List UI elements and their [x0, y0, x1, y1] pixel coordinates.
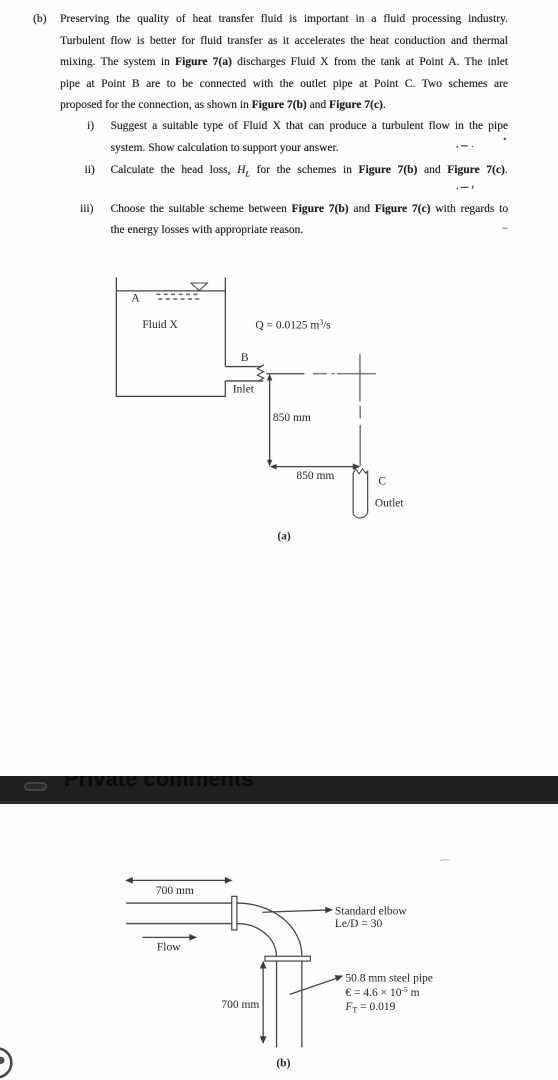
- bar icon: [24, 782, 47, 791]
- water surface triangle symbol: [191, 283, 208, 291]
- avatar ring: [0, 1048, 11, 1077]
- svg-text:(a): (a): [277, 530, 291, 542]
- leader line to steel pipe note: [290, 977, 340, 994]
- horizontal 850mm dimension line: [271, 466, 356, 468]
- bottom-left circle icon: [0, 1048, 11, 1077]
- horizontal pipe bottom wall: [126, 923, 231, 925]
- arrow left (horizontal 850mm dim): [270, 464, 277, 469]
- water surface dashes row2: [158, 298, 201, 300]
- vertical 700mm dimension line: [262, 963, 264, 1041]
- pen mark 1: [457, 146, 473, 148]
- faint smudge: [440, 860, 450, 861]
- svg-text:C: C: [378, 475, 386, 487]
- arrow to standard elbow text: [325, 907, 333, 914]
- pen mark 3: [502, 227, 507, 229]
- leader line to standard elbow: [262, 910, 329, 912]
- vertical pipe left wall: [276, 961, 278, 1047]
- bar title: [64, 767, 254, 791]
- elbow outer arc: [237, 903, 302, 956]
- centerline solid segment: [266, 373, 304, 375]
- svg-text:A: A: [131, 292, 140, 304]
- private comments bar: [0, 776, 558, 801]
- arrow of flow: [189, 934, 197, 941]
- vertical 850mm dimension line: [269, 376, 271, 464]
- arrow down (bottom of vertical 850mm dim): [267, 460, 272, 467]
- vertical dashed line to outlet: [359, 406, 361, 466]
- avatar dot: [0, 1057, 4, 1064]
- inlet pipe stub at B: [225, 367, 263, 381]
- arrow left (top 700mm dim): [125, 877, 133, 884]
- outlet pipe bottom curve: [353, 513, 368, 518]
- svg-text:Outlet: Outlet: [375, 497, 405, 509]
- svg-text:850 mm: 850 mm: [296, 470, 334, 482]
- outlet pipe top break: [353, 469, 368, 474]
- svg-text:50.8 mm steel pipe: 50.8 mm steel pipe: [345, 972, 433, 984]
- svg-text:Fluid X: Fluid X: [142, 319, 178, 331]
- flange at elbow outlet: [265, 956, 310, 961]
- arrow up (top of vertical 850mm dim): [267, 374, 272, 381]
- inlet pipe break squiggle: [257, 365, 264, 382]
- flange at elbow inlet: [232, 896, 237, 930]
- outlet pipe walls: [353, 471, 368, 514]
- svg-text:Q = 0.0125 m3/s: Q = 0.0125 m3/s: [255, 317, 331, 331]
- tank walls: [116, 277, 225, 396]
- svg-text:B: B: [241, 352, 249, 364]
- pen marks: [440, 138, 508, 861]
- svg-text:FT = 0.019: FT = 0.019: [344, 1001, 395, 1015]
- centerline dashes: [313, 373, 376, 375]
- arrow down (vertical 700mm dim): [260, 1036, 267, 1044]
- elbow inner arc: [237, 924, 276, 957]
- svg-text:850 mm: 850 mm: [273, 412, 311, 424]
- horizontal pipe top wall: [126, 902, 231, 904]
- water surface dashes: [156, 293, 199, 295]
- svg-text:700 mm: 700 mm: [221, 999, 259, 1011]
- crossing tick on centerline: [359, 354, 361, 401]
- svg-text:Flow: Flow: [157, 941, 181, 953]
- arrow up (vertical 700mm dim): [260, 961, 267, 969]
- top 700mm dimension line: [127, 879, 230, 881]
- arrow to steel pipe text: [335, 975, 344, 981]
- svg-text:Standard elbow: Standard elbow: [335, 905, 408, 917]
- vertical pipe right wall: [301, 961, 303, 1047]
- arrow right (horizontal 850mm dim): [353, 464, 361, 470]
- svg-text:Inlet: Inlet: [233, 383, 255, 395]
- svg-text:(b): (b): [276, 1057, 290, 1069]
- bar bottom shading: [0, 801, 558, 804]
- svg-text:700 mm: 700 mm: [156, 885, 194, 897]
- arrow right (top 700mm dim): [225, 877, 233, 884]
- flow arrow line: [142, 936, 192, 938]
- document text: [33, 12, 46, 26]
- water surface line: [116, 290, 225, 292]
- svg-text:Le/D = 30: Le/D = 30: [335, 918, 383, 930]
- svg-text:€ = 4.6 × 10-5 m: € = 4.6 × 10-5 m: [345, 985, 419, 999]
- pen dot: [504, 138, 506, 140]
- pen mark 2: [457, 185, 474, 189]
